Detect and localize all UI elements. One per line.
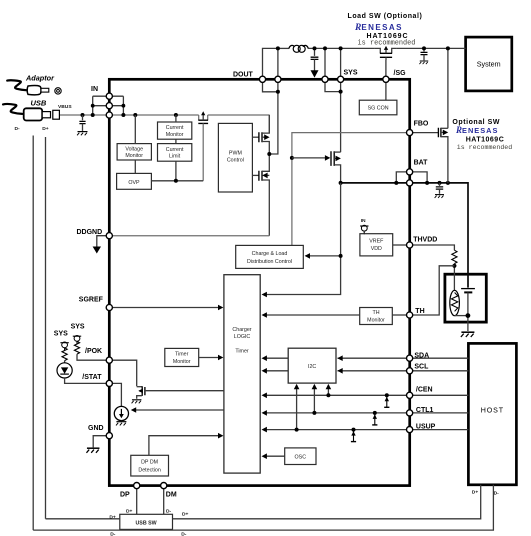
- svg-text:Voltage: Voltage: [125, 146, 143, 152]
- svg-text:Distribution Control: Distribution Control: [247, 259, 292, 265]
- svg-text:System: System: [477, 60, 501, 69]
- svg-text:DDGND: DDGND: [77, 229, 103, 236]
- svg-text:DP DM: DP DM: [141, 460, 158, 466]
- svg-text:VREF: VREF: [369, 239, 384, 245]
- svg-text:TH: TH: [415, 308, 424, 315]
- svg-text:THVDD: THVDD: [413, 237, 437, 244]
- svg-text:D+: D+: [472, 490, 479, 496]
- svg-text:Current: Current: [166, 125, 184, 131]
- svg-text:RENESAS: RENESAS: [455, 125, 498, 135]
- svg-text:Limit: Limit: [169, 154, 181, 160]
- svg-text:SCL: SCL: [414, 364, 429, 371]
- svg-text:Load SW (Optional): Load SW (Optional): [348, 13, 423, 20]
- svg-text:IN: IN: [361, 218, 366, 224]
- svg-text:D+: D+: [42, 126, 49, 132]
- svg-text:SYS: SYS: [54, 330, 68, 337]
- svg-text:OVP: OVP: [128, 180, 140, 186]
- svg-text:USB SW: USB SW: [135, 520, 156, 526]
- svg-text:Timer: Timer: [175, 352, 189, 358]
- svg-text:/STAT: /STAT: [82, 374, 102, 381]
- svg-text:D-: D-: [15, 126, 21, 132]
- svg-text:Control: Control: [227, 158, 244, 164]
- svg-text:PWM: PWM: [229, 151, 242, 157]
- svg-text:FBO: FBO: [414, 120, 429, 127]
- svg-text:D+: D+: [182, 511, 189, 517]
- svg-text:I2C: I2C: [308, 364, 316, 370]
- svg-text:SDA: SDA: [414, 352, 429, 359]
- svg-text:D-: D-: [494, 491, 500, 497]
- svg-text:D+: D+: [109, 514, 116, 520]
- svg-text:IN: IN: [91, 86, 98, 93]
- svg-text:/SG: /SG: [394, 70, 407, 77]
- svg-text:SYS: SYS: [71, 323, 85, 330]
- svg-text:D-: D-: [110, 532, 116, 536]
- svg-text:TH: TH: [372, 310, 379, 316]
- svg-text:SGREF: SGREF: [79, 297, 104, 304]
- svg-text:Monitor: Monitor: [166, 132, 184, 138]
- svg-text:Adaptor: Adaptor: [25, 74, 55, 83]
- svg-text:HAT1069C: HAT1069C: [466, 137, 505, 144]
- svg-text:CTL1: CTL1: [416, 407, 434, 414]
- svg-text:Monitor: Monitor: [173, 359, 191, 365]
- svg-text:DM: DM: [166, 491, 177, 498]
- svg-text:Monitor: Monitor: [367, 317, 385, 323]
- svg-text:Monitor: Monitor: [125, 153, 143, 159]
- svg-text:VDD: VDD: [371, 246, 382, 252]
- svg-text:SG CON: SG CON: [368, 106, 389, 112]
- svg-text:OSC: OSC: [295, 455, 307, 461]
- svg-text:Charger: Charger: [232, 327, 251, 333]
- svg-text:DOUT: DOUT: [233, 71, 254, 78]
- svg-text:is recommended: is recommended: [358, 39, 416, 47]
- svg-text:Current: Current: [166, 147, 184, 153]
- svg-text:LOGIC: LOGIC: [234, 334, 251, 340]
- svg-text:RENESAS: RENESAS: [354, 23, 403, 33]
- svg-text:Detection: Detection: [138, 468, 160, 474]
- svg-text:USUP: USUP: [416, 424, 436, 431]
- svg-text:Timer: Timer: [235, 349, 249, 355]
- svg-text:DP: DP: [120, 491, 130, 498]
- svg-text:D+: D+: [126, 508, 133, 514]
- svg-text:D-: D-: [166, 508, 172, 514]
- svg-text:USB: USB: [31, 99, 47, 108]
- svg-text:SYS: SYS: [344, 70, 358, 77]
- svg-text:is recommended: is recommended: [457, 144, 512, 151]
- svg-text:D-: D-: [181, 532, 187, 536]
- svg-text:/POK: /POK: [85, 348, 102, 355]
- svg-text:BAT: BAT: [414, 159, 429, 166]
- svg-text:HOST: HOST: [481, 407, 504, 415]
- svg-text:VBUS: VBUS: [58, 104, 72, 110]
- svg-text:/CEN: /CEN: [416, 386, 433, 393]
- svg-text:GND: GND: [88, 425, 104, 432]
- svg-text:Charge & Load: Charge & Load: [252, 251, 288, 257]
